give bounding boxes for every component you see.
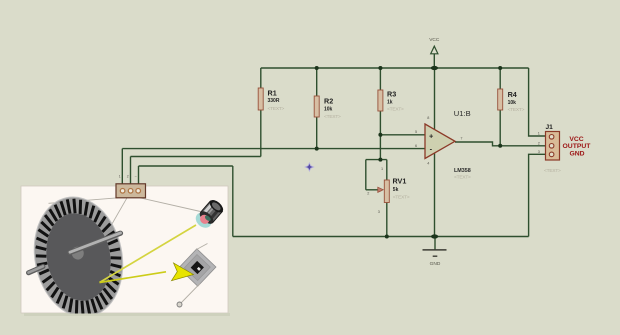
wire bottom ground rail [233, 236, 529, 238]
wire R4 bottom lead [499, 110, 501, 146]
svg-text:6: 6 [415, 144, 417, 148]
junction dot top rail R4 [498, 66, 502, 70]
wire GND stem [434, 237, 436, 250]
svg-text:4: 4 [427, 162, 429, 166]
svg-text:R3: R3 [387, 89, 396, 98]
svg-text:R2: R2 [324, 97, 333, 106]
svg-text:GND: GND [430, 261, 441, 267]
junction dot RV1 node [378, 158, 382, 162]
svg-text:7: 7 [460, 137, 462, 141]
svg-text:<TEXT>: <TEXT> [508, 107, 525, 113]
wire ground drop left [232, 166, 234, 237]
svg-text:2: 2 [127, 174, 129, 178]
junction dot ground rail op-amp [431, 234, 438, 238]
wire op-amp pin4 supply [434, 153, 436, 237]
light arrow into detector [172, 263, 194, 281]
wire R3 top lead [379, 68, 381, 90]
resistor R4 [498, 89, 525, 113]
svg-text:<TEXT>: <TEXT> [268, 106, 285, 112]
detector top lead [197, 244, 208, 250]
svg-text:1: 1 [538, 132, 540, 136]
svg-text:LM358: LM358 [454, 168, 471, 174]
svg-text:VCC: VCC [569, 136, 583, 143]
wire R2 bottom lead [316, 117, 318, 149]
wire R2 top lead [316, 68, 318, 96]
svg-text:1: 1 [119, 174, 121, 178]
svg-text:R1: R1 [268, 89, 277, 98]
wire op-amp pin8 supply [434, 68, 436, 130]
svg-text:10k: 10k [324, 106, 333, 112]
wire J1 pin3 riser [529, 154, 546, 236]
svg-text:+: + [429, 132, 434, 141]
junction dot R4 bottom on output [498, 144, 502, 148]
sensor lead to LED [140, 198, 201, 212]
potentiometer RV1 [367, 167, 410, 214]
sensor lead to disc [49, 198, 119, 204]
encoder disc [24, 189, 132, 324]
wire non-inverting input [380, 134, 425, 136]
light beam disc to detector [100, 272, 167, 283]
wire J1 pin2 stub [500, 145, 545, 147]
junction dot R3 to non-inverting input [378, 133, 382, 137]
detector lead and pin [180, 284, 200, 305]
optical sensor connector [116, 174, 146, 197]
svg-text:<TEXT>: <TEXT> [544, 168, 561, 174]
svg-text:5k: 5k [393, 187, 399, 193]
op-amp U1:B [415, 109, 471, 181]
wire RV1 top link [366, 159, 387, 161]
wire R4 top lead [499, 68, 501, 89]
wire R3 bottom lead to RV1 node [379, 111, 381, 160]
svg-text:1: 1 [381, 167, 383, 171]
wire sensor pin3 horizontal [139, 165, 233, 167]
wire R1 bottom lead to sensor pin2 net [260, 110, 262, 157]
svg-text:VCC: VCC [429, 37, 440, 43]
wire top VCC rail [261, 67, 529, 69]
svg-text:2: 2 [367, 192, 369, 196]
wire RV1 bottom lead [386, 203, 388, 237]
power symbol VCC [429, 37, 440, 54]
resistor R3 [378, 89, 404, 112]
phototransistor package [179, 249, 216, 286]
svg-text:U1:B: U1:B [454, 109, 471, 118]
svg-text:3: 3 [378, 210, 380, 214]
wire sensor pin1 vertical stub [121, 149, 123, 184]
svg-text:1k: 1k [387, 100, 393, 106]
svg-text:OUTPUT: OUTPUT [563, 143, 592, 150]
origin marker [305, 163, 313, 171]
wire sensor pin3 vertical stub [138, 166, 140, 184]
wire sensor pin1 to op-amp inverting input [122, 148, 425, 150]
svg-text:3: 3 [538, 150, 540, 154]
svg-text:J1: J1 [546, 124, 554, 131]
RV1 wiper arrow [378, 187, 383, 192]
sensor lead to shaft [107, 198, 128, 234]
wire sensor pin2 horizontal [131, 156, 261, 158]
light beam LED to disc [100, 225, 197, 283]
wire RV1 top lead [386, 160, 388, 180]
resistor R1 [258, 88, 284, 112]
svg-text:<TEXT>: <TEXT> [454, 175, 471, 181]
svg-text:R4: R4 [508, 90, 517, 99]
wire RV1 wiper loop vertical [365, 160, 367, 190]
connector J1 [538, 124, 592, 174]
junction dot top rail R3 [378, 66, 382, 70]
svg-text:–: – [135, 174, 137, 178]
resistor R2 [314, 96, 341, 120]
wire R1 top lead [260, 68, 262, 88]
svg-text:RV1: RV1 [393, 176, 407, 185]
svg-text:<TEXT>: <TEXT> [324, 114, 341, 120]
svg-text:10k: 10k [508, 100, 517, 106]
svg-text:5: 5 [415, 130, 417, 134]
wire J1 pin1 drop from top rail [529, 68, 546, 136]
motor shaft [29, 233, 121, 273]
wire sensor pin2 vertical stub [130, 157, 132, 185]
svg-text:<TEXT>: <TEXT> [393, 194, 410, 200]
junction dot top rail R2 [315, 66, 319, 70]
svg-text:330R: 330R [268, 98, 280, 104]
svg-text:8: 8 [427, 116, 429, 120]
svg-text:GND: GND [569, 150, 584, 157]
junction dot top rail VCC [431, 66, 438, 70]
junction dot R2 bottom on input net [315, 147, 319, 151]
wire op-amp output to J1 pin2 [455, 142, 500, 146]
ground [423, 250, 447, 267]
junction dot RV1 bottom rail [385, 235, 389, 239]
svg-text:<TEXT>: <TEXT> [387, 107, 404, 113]
LED emitter [193, 197, 226, 231]
svg-text:2: 2 [538, 141, 540, 145]
wire VCC stem [433, 54, 435, 68]
wire RV1 wiper loop horizontal [366, 189, 378, 191]
